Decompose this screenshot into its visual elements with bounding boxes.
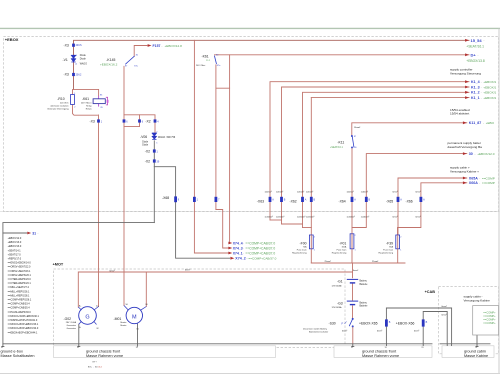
wire bus drop to G1	[352, 263, 354, 278]
svg-text:-F39: -F39	[386, 241, 393, 245]
svg-text:dauerhaft Versorgung Ba: dauerhaft Versorgung Ba	[448, 145, 483, 149]
wire M01.30 riser	[145, 272, 147, 307]
fuse F01	[350, 234, 354, 249]
wire chassis ground bus	[3, 343, 432, 345]
svg-text:6mm²: 6mm²	[353, 269, 358, 272]
svg-text:Batterietrennschalter: Batterietrennschalter	[309, 331, 328, 334]
svg-text:+EBOX/1: +EBOX/1	[483, 96, 496, 100]
arrow X65A	[463, 176, 495, 180]
potential box chassis left	[54, 346, 276, 358]
svg-text:K1_3: K1_3	[471, 85, 480, 89]
ground tick X65	[385, 344, 387, 346]
svg-text:Starter: Starter	[120, 321, 127, 324]
wire X3.1 to G02 D+	[98, 115, 100, 307]
svg-text:+EBOX/13.8: +EBOX/13.8	[466, 59, 485, 63]
svg-text:16mm²: 16mm²	[354, 126, 361, 129]
wire K1_4 rail	[270, 82, 469, 220]
svg-text:+EBOX/12.0: +EBOX/12.0	[477, 152, 495, 156]
terminal X2:1	[153, 149, 156, 152]
svg-text:+EBOX/12.0: +EBOX/12.0	[8, 237, 22, 240]
svg-text:X74_1: X74_1	[233, 251, 243, 255]
svg-text:31: 31	[77, 347, 79, 349]
wire branch to X68.9 and X74_2 arrow	[154, 167, 229, 259]
wire battery bus	[311, 262, 405, 264]
svg-text:-: -	[243, 251, 244, 255]
svg-text:-X68: -X68	[162, 196, 169, 200]
svg-text:28V / 140A: 28V / 140A	[66, 321, 77, 324]
svg-text:-: -	[38, 232, 39, 235]
svg-text:==ORSV+SEAT/23.1: ==ORSV+SEAT/23.1	[8, 270, 31, 273]
wire G02.B- to bus	[78, 324, 80, 344]
svg-text:+MOT: +MOT	[53, 263, 64, 267]
svg-text:Hauptsicherung: Hauptsicherung	[378, 252, 393, 255]
arrow X74_4	[228, 241, 275, 245]
ground tick S30	[352, 344, 354, 347]
arrow X74_1	[228, 251, 275, 255]
svg-text:1x6mm²: 1x6mm²	[265, 190, 273, 193]
svg-text:1x6mm²: 1x6mm²	[276, 190, 284, 193]
svg-text:WAGO: WAGO	[80, 63, 87, 66]
wire K61 blade	[215, 56, 217, 64]
svg-text:X65A: X65A	[469, 176, 478, 180]
svg-text:==OTER+REPS/23.0: ==OTER+REPS/23.0	[8, 278, 32, 281]
svg-text:Masse Kabine: Masse Kabine	[464, 354, 488, 358]
svg-text:220 Ohm: 220 Ohm	[60, 103, 69, 105]
svg-text:+REPS/17.0: +REPS/17.0	[8, 258, 22, 261]
wire D+ rail	[215, 54, 470, 56]
terminal X68:9	[174, 196, 177, 202]
wire X66A rail to X66.A	[398, 183, 467, 235]
svg-text:==MILL+SEAT/27.4: ==MILL+SEAT/27.4	[8, 286, 30, 289]
svg-text:-F01: -F01	[339, 241, 346, 245]
terminal X68:1	[193, 197, 196, 202]
svg-text:-G3: -G3	[337, 301, 343, 305]
frame right border	[498, 28, 500, 373]
frame top line	[0, 27, 500, 29]
arrow K1_3	[465, 85, 496, 89]
wire F39 bottom to bus	[397, 249, 399, 263]
wire M01.31 to bus	[137, 324, 139, 344]
wire F01 bottom to bus	[351, 249, 353, 263]
frame bottom line	[0, 373, 500, 375]
svg-text:1x16mm²: 1x16mm²	[265, 215, 274, 218]
svg-text:==MOCO+BOP+EBOX/43.1: ==MOCO+BOP+EBOX/43.1	[8, 323, 39, 326]
svg-text:1x16mm²: 1x16mm²	[276, 215, 285, 218]
svg-text:==OTER+REPS/23.1: ==OTER+REPS/23.1	[8, 282, 32, 285]
diode V06	[152, 133, 156, 139]
svg-text:+EBO: +EBO	[486, 121, 495, 125]
svg-text:-K61: -K61	[202, 55, 209, 59]
svg-text:X74_2: X74_2	[235, 257, 245, 261]
starter motor M01	[124, 306, 146, 325]
wire G3 to S30	[352, 306, 354, 318]
terminal X66:A	[420, 197, 423, 202]
svg-text:80A: 80A	[389, 246, 393, 249]
svg-text:6mm²: 6mm²	[414, 329, 419, 332]
ground tick G02	[78, 344, 80, 347]
svg-text:==COMP: ==COMP	[482, 181, 495, 185]
svg-text:W: W	[97, 328, 99, 330]
wire X65.B to cabin	[386, 308, 451, 344]
svg-text:==MILL+REPS/26.1: ==MILL+REPS/26.1	[8, 290, 30, 293]
svg-text:+CAB: +CAB	[425, 290, 436, 294]
arrow F157	[148, 44, 182, 48]
terminal X62:B	[310, 197, 313, 202]
svg-text:Starter: Starter	[120, 324, 127, 327]
svg-text:G: G	[85, 314, 89, 320]
wire rail 15_54	[74, 40, 470, 89]
svg-text:31: 31	[1, 347, 3, 349]
terminal X64:A	[351, 197, 354, 202]
svg-text:Disconnect switch Battery: Disconnect switch Battery	[303, 327, 328, 330]
svg-text:Fuse main: Fuse main	[337, 250, 348, 252]
arrow K1_2	[465, 91, 496, 95]
svg-text:6mm²: 6mm²	[393, 190, 398, 193]
svg-text:87 ¬: 87 ¬	[93, 361, 98, 363]
wire S30 to ground bus	[352, 327, 354, 344]
terminal X3:1	[97, 119, 100, 122]
svg-text:F: F	[342, 321, 344, 325]
svg-text:==COMP+CAB/37.0: ==COMP+CAB/37.0	[245, 241, 275, 245]
svg-text:-: -	[483, 121, 484, 125]
svg-text:Generator: Generator	[67, 324, 77, 327]
svg-text:6mm²: 6mm²	[393, 215, 398, 218]
svg-text:31: 31	[136, 347, 138, 349]
svg-text:==COMP+CAB/37.0: ==COMP+CAB/37.0	[245, 251, 275, 255]
svg-text:+EBOX/13.0: +EBOX/13.0	[8, 241, 22, 244]
svg-text:-X2: -X2	[145, 150, 150, 154]
svg-text:X74_3: X74_3	[233, 246, 243, 250]
generator G02	[78, 307, 98, 325]
wire X2 top jog	[124, 115, 155, 120]
svg-text:Batterie: Batterie	[360, 283, 369, 286]
wire ground return to e-box	[3, 223, 154, 344]
svg-text:150A: 150A	[341, 246, 346, 249]
battery G3	[347, 301, 358, 305]
ground tick e-box	[2, 344, 4, 347]
wire stair X63.B to F00	[282, 223, 303, 225]
svg-text:1x6mm²: 1x6mm²	[347, 190, 355, 193]
wire rail1 to X68.1 to X74_1 arrow	[194, 40, 229, 253]
svg-text:==COMP+: ==COMP+	[483, 321, 496, 325]
arrow X66A	[463, 181, 495, 185]
wire K145.30 up to F157	[134, 46, 147, 57]
svg-text:==COMP+CAB/37.0: ==COMP+CAB/37.0	[245, 246, 275, 250]
svg-text:-: -	[475, 152, 476, 156]
wire K11 blade	[352, 136, 354, 147]
svg-text:Masse Schaltkasten: Masse Schaltkasten	[1, 354, 35, 358]
svg-text:Versorgung Kabine: Versorgung Kabine	[464, 299, 491, 303]
arrow X74_2	[230, 257, 276, 261]
svg-text:-: -	[479, 181, 480, 185]
terminal X68:7	[215, 197, 218, 202]
wire K11_87 rail	[352, 123, 467, 136]
location box +CAB	[438, 287, 498, 354]
svg-text:1x16mm²: 1x16mm²	[297, 215, 306, 218]
wire X68.2 jog to X74_3 arrow	[216, 210, 230, 249]
svg-text:-: -	[481, 80, 482, 84]
svg-text:-X64: -X64	[339, 200, 346, 204]
svg-text:+EBOX/1: +EBOX/1	[483, 91, 496, 95]
arrow D+	[465, 52, 485, 63]
disconnect switch S30	[349, 318, 353, 327]
arrow 30	[463, 152, 495, 156]
svg-text:12V/102Ah: 12V/102Ah	[332, 306, 343, 309]
terminal X65:A	[397, 197, 400, 202]
svg-text:Generator Vorerregung: Generator Vorerregung	[47, 107, 69, 110]
wire X66.B to cabin	[423, 312, 447, 344]
wire K1_2 rail	[303, 92, 470, 227]
arrow X74_3	[228, 246, 275, 250]
svg-text:6mm²: 6mm²	[110, 269, 115, 272]
svg-text:-: -	[243, 246, 244, 250]
terminal X2:39	[153, 159, 156, 162]
svg-text:6mm²: 6mm²	[416, 215, 421, 218]
svg-text:Masse Rahmen vorne: Masse Rahmen vorne	[362, 354, 399, 358]
svg-text:==MILL+REPS/28.1: ==MILL+REPS/28.1	[8, 294, 30, 297]
svg-text:Hauptsicherung: Hauptsicherung	[292, 252, 307, 255]
wire X65A rail to X65.A to F39	[398, 178, 467, 235]
svg-text:24V / Mini: 24V / Mini	[196, 65, 206, 67]
svg-text:K1_1: K1_1	[471, 96, 480, 100]
svg-text:-: -	[479, 176, 480, 180]
terminal X2:6b	[138, 119, 141, 122]
ground tick cabin1	[446, 344, 448, 346]
wire 30 rail to X64.B	[352, 154, 467, 228]
arrow 31	[27, 232, 38, 236]
wire R10 top stub	[72, 89, 74, 94]
location box +MOT	[54, 269, 346, 348]
svg-text:+EBOX/1: +EBOX/1	[483, 80, 496, 84]
svg-text:Batterie: Batterie	[360, 305, 369, 308]
svg-text:6mm²: 6mm²	[377, 329, 382, 332]
wire K1_1 rail	[311, 97, 469, 99]
wire K11 lower leg to X64.A to F01	[351, 148, 353, 234]
svg-text:+SEAT/16.1: +SEAT/16.1	[330, 146, 343, 149]
wire R10 bottom to X3.1	[73, 105, 98, 116]
svg-text:+EBOX: +EBOX	[5, 37, 19, 42]
svg-text:==WSPR+WOP+HOD/41.0: ==WSPR+WOP+HOD/41.0	[8, 319, 38, 322]
svg-text:==EBOX+BOP+EBOX/44.1: ==EBOX+BOP+EBOX/44.1	[8, 331, 38, 334]
svg-text:-V06: -V06	[140, 135, 147, 139]
wire K145 blade	[126, 56, 135, 64]
svg-text:+EBOX/12.8: +EBOX/12.8	[165, 44, 183, 48]
svg-text:1x6mm²: 1x6mm²	[306, 190, 314, 193]
wire X2 U-loop	[124, 123, 140, 127]
svg-text:-X62: -X62	[290, 200, 297, 204]
svg-text:-F00: -F00	[300, 241, 307, 245]
ground tick cabin2	[451, 344, 453, 346]
arrow 15_54	[465, 38, 484, 49]
svg-text:31: 31	[421, 347, 423, 349]
wire X66 bottom to bus	[422, 327, 424, 344]
wire B+ main run	[78, 272, 352, 307]
wire K61 feed from rail1	[216, 55, 230, 88]
svg-text:Diode: Diode	[142, 145, 149, 147]
svg-text:6mm²: 6mm²	[416, 190, 421, 193]
svg-text:-: -	[162, 45, 163, 48]
svg-text:Diode: Diode	[80, 55, 87, 57]
svg-text:-S30: -S30	[329, 321, 336, 325]
svg-text:-: -	[484, 39, 485, 43]
svg-text:6mm²: 6mm²	[442, 305, 447, 308]
contact K11	[351, 135, 352, 148]
svg-text:+EBOX/13.0: +EBOX/13.0	[8, 245, 22, 248]
svg-text:B-: B-	[79, 327, 81, 329]
svg-text:==COMP+: ==COMP+	[483, 314, 496, 318]
svg-text:31: 31	[475, 347, 477, 349]
location box +EBOX	[3, 37, 498, 212]
svg-text:31: 31	[351, 347, 353, 349]
svg-text:==ORSV+REPS/26.1: ==ORSV+REPS/26.1	[8, 274, 32, 277]
ground tick X66	[422, 344, 424, 346]
wire cabin box leg	[476, 335, 478, 344]
svg-text:-G02: -G02	[64, 317, 72, 321]
svg-text:30: 30	[469, 152, 473, 156]
svg-text:31: 31	[32, 232, 36, 236]
svg-text:+EBOX/16.2: +EBOX/16.2	[100, 62, 118, 66]
wire stair X63.A to F00	[270, 219, 282, 221]
svg-text:+EBOX-X66: +EBOX-X66	[396, 322, 415, 326]
terminal X3:20US	[72, 44, 75, 47]
svg-text:-R10: -R10	[57, 97, 64, 101]
svg-text:X74_4: X74_4	[233, 241, 243, 245]
wire X62.B down to F00	[310, 98, 312, 235]
svg-text:-V1: -V1	[63, 58, 68, 62]
svg-text:X66A: X66A	[469, 181, 478, 185]
svg-text:Fuse main: Fuse main	[297, 250, 308, 252]
wire K61 feed lower to X74_4 arrow	[229, 88, 231, 243]
fuse F00	[309, 235, 313, 249]
svg-text:Fuse main: Fuse main	[383, 250, 394, 252]
svg-text:-X63: -X63	[257, 200, 264, 204]
ground tick cabin3	[476, 344, 478, 347]
svg-text:==COMP+CAB/33.4: ==COMP+CAB/33.4	[8, 303, 31, 306]
svg-text:1x16mm²: 1x16mm²	[306, 215, 315, 218]
svg-text:25mm²: 25mm²	[372, 260, 379, 263]
diode V1	[71, 55, 75, 62]
terminal X2:6	[123, 119, 126, 122]
terminal X3:20U2	[72, 73, 75, 76]
terminal EBOX-X66:B	[422, 319, 425, 326]
svg-text:Masse Rahmen vorne: Masse Rahmen vorne	[86, 354, 123, 358]
svg-text:-K61: -K61	[82, 97, 89, 101]
terminal X2:4	[154, 119, 157, 122]
svg-text:-: -	[481, 96, 482, 100]
svg-text:1x16mm²: 1x16mm²	[347, 215, 356, 218]
potential box cabin	[442, 346, 494, 358]
svg-text:70A: 70A	[303, 246, 307, 249]
svg-text:+EBOX-X65: +EBOX-X65	[359, 322, 378, 326]
svg-text:M: M	[132, 314, 137, 320]
svg-text:-G1: -G1	[337, 280, 343, 284]
wire G1 to G3	[352, 284, 354, 300]
terminal X63:A	[269, 197, 272, 202]
svg-text:6mm²: 6mm²	[442, 313, 447, 316]
svg-text:Battery: Battery	[360, 301, 368, 304]
wire cabin ground bus	[440, 343, 490, 345]
svg-text:15_54: 15_54	[471, 38, 483, 43]
svg-text:==COMP+CAB/35.4: ==COMP+CAB/35.4	[8, 307, 31, 310]
svg-text:Versorgung Kabine +: Versorgung Kabine +	[450, 169, 479, 173]
wire K61.87a down through X68.2	[215, 65, 217, 210]
svg-text:K1_4: K1_4	[471, 80, 480, 84]
wire X2.6b top stub	[139, 115, 141, 120]
wire R10 branch split	[74, 89, 99, 95]
wire stair X62.A to F00	[303, 227, 312, 229]
svg-text:-X66: -X66	[406, 200, 413, 204]
svg-text:-: -	[243, 241, 244, 245]
relay coil K61	[93, 97, 108, 105]
terminal X64:B	[365, 197, 368, 202]
svg-text:20U2: 20U2	[76, 74, 82, 77]
svg-text:6mm²: 6mm²	[342, 329, 347, 332]
svg-text:+SEAT/14.1: +SEAT/14.1	[8, 249, 22, 252]
svg-text:D+: D+	[471, 52, 477, 57]
wire K1_3 rail	[282, 87, 470, 224]
svg-text:-X3: -X3	[64, 43, 69, 47]
svg-text:-X3: -X3	[64, 73, 69, 77]
svg-text:-: -	[478, 53, 479, 57]
wire 31 arrow stub	[3, 232, 27, 234]
svg-text:15/54 aktiviert: 15/54 aktiviert	[450, 112, 469, 116]
svg-text:Battery: Battery	[360, 280, 368, 283]
svg-text:1x6mm²: 1x6mm²	[361, 190, 369, 193]
svg-text:==PLUM+REPS/33.0: ==PLUM+REPS/33.0	[8, 311, 32, 314]
wire X65 bottom to bus	[385, 327, 387, 344]
cabin device box	[473, 306, 499, 335]
potential box chassis right	[334, 346, 432, 358]
svg-text:Generator: Generator	[67, 327, 77, 330]
svg-text:+SEAT/17.0: +SEAT/17.0	[8, 253, 22, 256]
svg-text:1x6mm²: 1x6mm²	[297, 190, 305, 193]
wire K145.87 down to M01.50	[123, 66, 125, 305]
svg-text:Diode: Diode	[80, 58, 87, 60]
battery G1	[347, 279, 358, 283]
svg-text:20US: 20US	[76, 44, 82, 47]
svg-text:K1_2: K1_2	[471, 91, 480, 95]
svg-text:==ORSV+SEAT/22.0: ==ORSV+SEAT/22.0	[8, 266, 31, 269]
svg-text:WAGO / MR 756: WAGO / MR 756	[158, 136, 176, 139]
svg-text:12V/102Ah: 12V/102Ah	[332, 284, 343, 287]
svg-text:-: -	[481, 91, 482, 95]
wire F00 bottom to bus	[310, 249, 312, 263]
svg-text:-K11: -K11	[337, 141, 344, 145]
svg-text:-: -	[481, 85, 482, 89]
svg-text:1x16mm²: 1x16mm²	[361, 215, 370, 218]
terminal X63:B	[280, 197, 283, 202]
arrow K1_1	[465, 96, 496, 100]
svg-text:==MOCO+WOP+EBOX/40.1: ==MOCO+WOP+EBOX/40.1	[8, 315, 40, 318]
terminal X62:A	[301, 197, 304, 202]
svg-text:==COMP+REPS/26.1: ==COMP+REPS/26.1	[8, 299, 32, 302]
svg-text:-X2: -X2	[145, 120, 150, 124]
ground tick M01	[137, 344, 139, 347]
svg-text:==MOCO+BOP+EBOX/44.0: ==MOCO+BOP+EBOX/44.0	[8, 327, 39, 330]
svg-text:24V / Micro: 24V / Micro	[81, 102, 92, 105]
svg-text:F157: F157	[153, 44, 161, 48]
svg-text:-X2: -X2	[145, 160, 150, 164]
svg-text:==COMP: ==COMP	[482, 176, 495, 180]
svg-text:-M01: -M01	[114, 317, 122, 321]
svg-text:Versorgung Steuerung: Versorgung Steuerung	[450, 71, 481, 75]
svg-text:Relais: Relais	[86, 108, 92, 110]
svg-text:Diode: Diode	[142, 142, 149, 144]
fuse F39	[396, 235, 400, 249]
svg-text:Hauptsicherung: Hauptsicherung	[332, 252, 347, 255]
svg-text:- ==COMP+CAB/37.0: - ==COMP+CAB/37.0	[247, 257, 277, 261]
svg-text:-X65: -X65	[386, 200, 393, 204]
